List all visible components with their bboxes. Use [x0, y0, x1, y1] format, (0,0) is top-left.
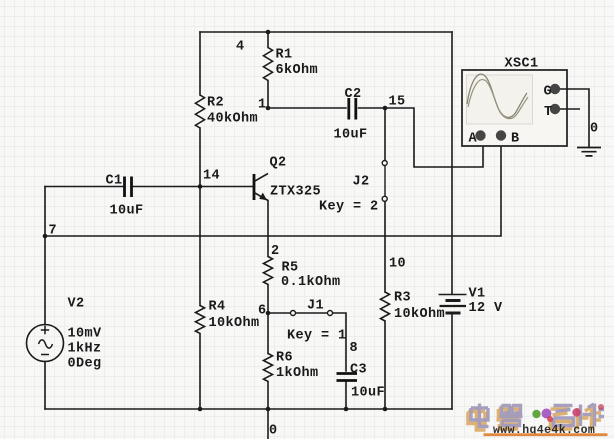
svg-text:7: 7: [49, 224, 58, 239]
svg-text:1kOhm: 1kOhm: [276, 366, 319, 381]
node 15: [383, 106, 388, 111]
node 6: [266, 311, 271, 316]
svg-text:J1: J1: [307, 299, 324, 314]
svg-text:A: A: [469, 132, 478, 147]
capacitor C3 10uF: [337, 374, 358, 381]
svg-text:B: B: [511, 132, 520, 147]
switch J2 Key=2: [382, 161, 387, 202]
svg-text:ZTX325: ZTX325: [270, 185, 321, 200]
svg-text:10uF: 10uF: [334, 128, 368, 143]
node junction top R1: [266, 30, 271, 35]
svg-text:T: T: [544, 105, 553, 120]
svg-text:2: 2: [271, 244, 280, 259]
node 1: [266, 106, 271, 111]
wire R5 to node 6: [267, 285, 269, 314]
svg-text:1kHz: 1kHz: [68, 342, 102, 357]
svg-text:12 V: 12 V: [469, 301, 504, 316]
ground symbol scope: [577, 148, 601, 156]
resistor R4 10kOhm: [196, 306, 205, 334]
node 7: [43, 234, 48, 239]
wire node15 to scope A: [385, 108, 483, 167]
svg-text:R1: R1: [276, 48, 293, 63]
wire R6 to bottom: [267, 382, 269, 410]
wire C2 to node 15: [359, 107, 386, 109]
svg-text:C2: C2: [345, 87, 362, 102]
svg-text:0: 0: [269, 424, 278, 439]
svg-text:Key = 2: Key = 2: [319, 200, 379, 215]
svg-text:8: 8: [350, 341, 359, 356]
oscilloscope XSC1: [462, 70, 567, 146]
source V2 sine: [27, 325, 64, 362]
switch J1 Key=1: [291, 311, 333, 316]
svg-text:0Deg: 0Deg: [68, 357, 102, 372]
wire emitter to R5: [267, 201, 269, 257]
svg-text:G: G: [544, 85, 553, 100]
wire node1 to C2: [268, 107, 346, 109]
resistor R6 1kOhm: [264, 354, 273, 382]
svg-text:Key = 1: Key = 1: [287, 329, 347, 344]
svg-text:6: 6: [258, 304, 267, 319]
svg-text:10kOhm: 10kOhm: [209, 316, 260, 331]
wire node7 to scope B: [45, 141, 501, 236]
resistor R3 10kOhm: [381, 292, 390, 321]
svg-text:10uF: 10uF: [110, 204, 144, 219]
svg-text:Q2: Q2: [270, 156, 287, 171]
svg-text:R4: R4: [209, 300, 226, 315]
svg-text:15: 15: [389, 95, 406, 110]
svg-text:R5: R5: [282, 261, 299, 276]
svg-text:10mV: 10mV: [68, 327, 103, 342]
wire J1 to C3: [333, 313, 347, 371]
svg-text:10: 10: [389, 257, 406, 272]
wire C1 left: [45, 186, 123, 188]
wire C3 to bottom rail: [345, 382, 347, 409]
wire node6 to J1: [268, 312, 291, 314]
resistor R2 40kOhm: [196, 95, 205, 128]
svg-text:0: 0: [590, 122, 599, 137]
node bottom R4: [198, 407, 203, 412]
node junction dots: [43, 30, 388, 412]
wire input vertical to node 7 and V2: [44, 187, 46, 410]
scope terminal G: [550, 84, 560, 94]
svg-text:10kOhm: 10kOhm: [394, 307, 445, 322]
wire C1 to base node 14: [133, 186, 254, 188]
svg-text:J2: J2: [353, 175, 370, 190]
node bottom R6: [266, 407, 271, 412]
node bottom R3: [383, 407, 388, 412]
wire R1 branch vertical: [267, 32, 269, 108]
watermark logo: [468, 404, 608, 438]
svg-text:C3: C3: [350, 363, 367, 378]
wire G to ground: [560, 89, 589, 147]
wire ground stub node 0: [267, 409, 269, 439]
wire node15 to J2: [384, 108, 386, 161]
svg-text:4: 4: [236, 40, 245, 55]
wire J2 to R3: [384, 202, 386, 410]
scope terminal T: [550, 104, 560, 114]
wire T stub: [560, 108, 580, 110]
scope terminal B: [496, 130, 506, 140]
node bottom C3: [344, 407, 349, 412]
svg-text:0.1kOhm: 0.1kOhm: [281, 275, 341, 290]
svg-text:V1: V1: [469, 287, 486, 302]
wire battery branch: [451, 32, 453, 409]
wire bottom rail: [45, 408, 452, 410]
capacitor C1 10uF: [125, 177, 132, 198]
node 14: [198, 184, 203, 189]
svg-text:R2: R2: [207, 96, 224, 111]
wire top rail node 4: [200, 31, 452, 33]
battery V1 12V: [439, 295, 467, 314]
svg-text:10uF: 10uF: [351, 386, 385, 401]
svg-text:R6: R6: [276, 351, 293, 366]
svg-text:XSC1: XSC1: [505, 57, 539, 72]
wire R2-R4 branch vertical: [199, 32, 201, 409]
svg-text:6kOhm: 6kOhm: [276, 63, 319, 78]
resistor R5 0.1kOhm: [264, 257, 273, 285]
transistor Q2 ZTX325: [254, 174, 268, 201]
svg-text:14: 14: [203, 169, 220, 184]
scope terminal A: [475, 130, 485, 140]
svg-text:C1: C1: [106, 174, 123, 189]
resistor R1 6kOhm: [264, 48, 273, 81]
capacitor C2 10uF: [349, 98, 356, 120]
svg-text:R3: R3: [394, 291, 411, 306]
svg-text:40kOhm: 40kOhm: [207, 112, 258, 127]
svg-text:1: 1: [258, 98, 267, 113]
wire R6 top: [267, 313, 269, 354]
svg-text:V2: V2: [68, 297, 85, 312]
